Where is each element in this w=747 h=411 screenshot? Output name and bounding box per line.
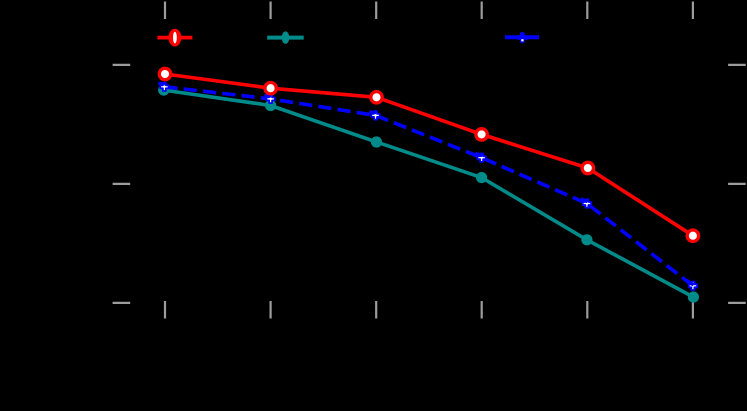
- legend red line: [157, 29, 192, 47]
- legend blue dashed line: [505, 33, 539, 42]
- x-axis top ticks: [165, 2, 693, 20]
- blue data markers: [160, 83, 697, 290]
- x-axis bottom ticks: [165, 301, 693, 319]
- y-axis left ticks: [113, 65, 131, 303]
- red data markers: [159, 68, 698, 241]
- teal data markers: [158, 85, 699, 303]
- legend teal line: [267, 31, 304, 43]
- blue dash overlay on markers: [158, 83, 693, 285]
- blue dashed data line: [164, 87, 693, 286]
- red data line: [165, 74, 693, 236]
- y-axis right ticks: [728, 65, 746, 303]
- teal data line: [164, 90, 694, 297]
